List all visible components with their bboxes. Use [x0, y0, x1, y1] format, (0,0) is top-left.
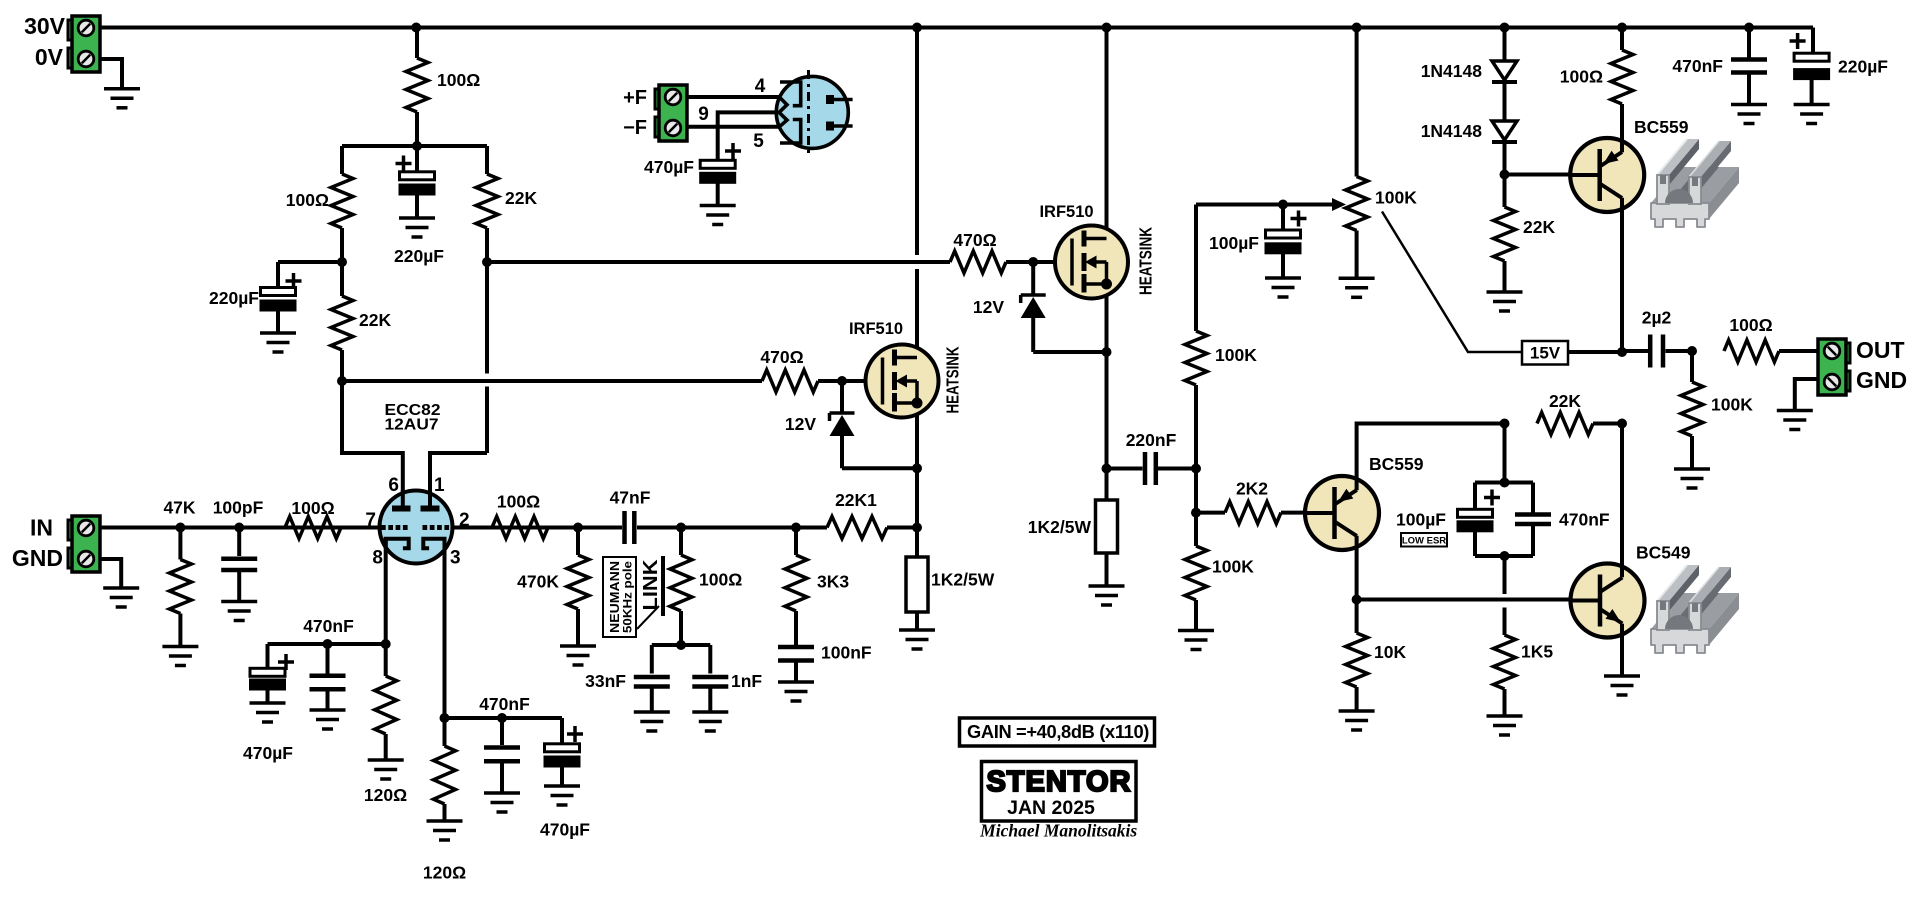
svg-text:HEATSINK: HEATSINK: [1136, 227, 1156, 295]
svg-text:GND: GND: [1856, 367, 1907, 393]
svg-text:Michael Manolitsakis: Michael Manolitsakis: [979, 821, 1137, 841]
svg-text:4: 4: [755, 76, 766, 97]
svg-text:470nF: 470nF: [303, 616, 354, 636]
svg-text:3K3: 3K3: [817, 572, 849, 592]
svg-text:2K2: 2K2: [1236, 479, 1268, 499]
svg-text:100µF: 100µF: [1209, 233, 1259, 253]
svg-text:33nF: 33nF: [585, 671, 626, 691]
svg-text:LINK: LINK: [640, 559, 662, 611]
svg-text:220nF: 220nF: [1126, 430, 1177, 450]
svg-text:1K2/5W: 1K2/5W: [931, 570, 995, 590]
svg-text:220µF: 220µF: [394, 246, 444, 266]
svg-text:30V: 30V: [24, 13, 66, 39]
svg-text:JAN 2025: JAN 2025: [1007, 797, 1095, 819]
svg-text:100Ω: 100Ω: [699, 570, 742, 590]
svg-text:8: 8: [372, 548, 383, 569]
svg-text:LOW ESR: LOW ESR: [1402, 536, 1446, 547]
svg-text:470K: 470K: [517, 572, 559, 592]
svg-text:100Ω: 100Ω: [1729, 315, 1772, 335]
svg-text:100pF: 100pF: [213, 498, 264, 518]
svg-text:3: 3: [450, 548, 461, 569]
svg-text:470nF: 470nF: [1672, 56, 1723, 76]
svg-text:470µF: 470µF: [644, 157, 694, 177]
svg-text:470nF: 470nF: [479, 694, 530, 714]
svg-text:NEUMANN: NEUMANN: [607, 561, 622, 633]
svg-text:47K: 47K: [163, 498, 195, 518]
svg-text:47nF: 47nF: [610, 488, 651, 508]
svg-text:1nF: 1nF: [731, 671, 762, 691]
svg-text:100Ω: 100Ω: [1560, 67, 1603, 87]
svg-text:100K: 100K: [1212, 557, 1254, 577]
svg-text:IRF510: IRF510: [1039, 203, 1093, 221]
svg-text:470nF: 470nF: [1559, 510, 1610, 530]
svg-text:STENTOR: STENTOR: [986, 766, 1131, 798]
svg-text:10K: 10K: [1374, 642, 1406, 662]
svg-text:470Ω: 470Ω: [760, 347, 803, 367]
svg-text:120Ω: 120Ω: [364, 785, 407, 805]
svg-text:50KHz pole: 50KHz pole: [623, 561, 635, 633]
svg-text:100K: 100K: [1375, 188, 1417, 208]
svg-text:2µ2: 2µ2: [1642, 308, 1672, 328]
svg-text:22K: 22K: [359, 310, 391, 330]
svg-text:15V: 15V: [1530, 344, 1561, 363]
svg-text:0V: 0V: [35, 44, 64, 70]
svg-text:100Ω: 100Ω: [437, 70, 480, 90]
svg-text:100µF: 100µF: [1396, 510, 1446, 530]
svg-text:120Ω: 120Ω: [423, 863, 466, 883]
svg-text:9: 9: [698, 104, 709, 125]
svg-text:470µF: 470µF: [540, 820, 590, 840]
svg-text:1N4148: 1N4148: [1421, 121, 1483, 141]
svg-text:OUT: OUT: [1856, 337, 1905, 363]
svg-text:12AU7: 12AU7: [385, 417, 439, 434]
svg-text:IN: IN: [30, 515, 53, 541]
svg-text:470µF: 470µF: [243, 743, 293, 763]
svg-text:100nF: 100nF: [821, 643, 872, 663]
svg-text:22K1: 22K1: [835, 490, 877, 510]
svg-text:6: 6: [388, 475, 399, 496]
svg-text:220µF: 220µF: [1838, 57, 1888, 77]
svg-text:100Ω: 100Ω: [291, 498, 334, 518]
svg-text:12V: 12V: [785, 414, 816, 434]
svg-text:GAIN =+40,8dB (x110): GAIN =+40,8dB (x110): [967, 721, 1149, 742]
svg-text:220µF: 220µF: [209, 288, 259, 308]
svg-text:22K: 22K: [505, 188, 537, 208]
svg-text:22K: 22K: [1523, 217, 1555, 237]
svg-text:GND: GND: [12, 545, 63, 571]
svg-text:22K: 22K: [1549, 391, 1581, 411]
svg-text:1N4148: 1N4148: [1421, 61, 1483, 81]
svg-text:BC549: BC549: [1636, 543, 1691, 563]
svg-text:BC559: BC559: [1634, 117, 1689, 137]
svg-text:1K5: 1K5: [1521, 642, 1553, 662]
svg-text:BC559: BC559: [1369, 454, 1424, 474]
svg-text:IRF510: IRF510: [849, 320, 903, 338]
svg-text:470Ω: 470Ω: [953, 230, 996, 250]
svg-text:1K2/5W: 1K2/5W: [1028, 517, 1092, 537]
svg-text:100K: 100K: [1711, 395, 1753, 415]
svg-text:1: 1: [434, 475, 445, 496]
svg-text:12V: 12V: [973, 297, 1004, 317]
svg-text:−F: −F: [623, 117, 647, 139]
svg-text:100K: 100K: [1215, 345, 1257, 365]
svg-text:100Ω: 100Ω: [286, 190, 329, 210]
svg-text:+F: +F: [623, 87, 647, 109]
svg-text:HEATSINK: HEATSINK: [943, 346, 963, 413]
svg-text:5: 5: [753, 131, 764, 152]
svg-text:100Ω: 100Ω: [497, 492, 540, 512]
